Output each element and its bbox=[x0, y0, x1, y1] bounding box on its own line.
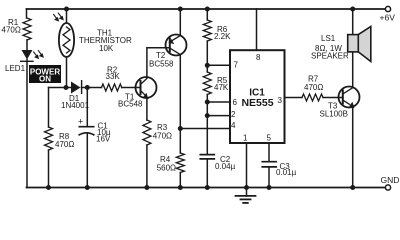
svg-text:4: 4 bbox=[231, 121, 236, 130]
svg-text:5: 5 bbox=[267, 134, 272, 143]
svg-text:NE555: NE555 bbox=[241, 97, 273, 109]
svg-text:0.04µ: 0.04µ bbox=[215, 162, 236, 171]
svg-text:7: 7 bbox=[234, 61, 239, 70]
svg-text:560Ω: 560Ω bbox=[157, 164, 176, 173]
svg-text:470Ω: 470Ω bbox=[55, 140, 74, 149]
svg-text:+6V: +6V bbox=[380, 12, 396, 22]
svg-text:3: 3 bbox=[278, 96, 283, 105]
svg-text:1N4001: 1N4001 bbox=[61, 101, 90, 110]
svg-text:0.01µ: 0.01µ bbox=[276, 168, 297, 177]
svg-text:47K: 47K bbox=[214, 83, 229, 92]
svg-text:6: 6 bbox=[233, 98, 238, 107]
svg-text:2: 2 bbox=[231, 110, 236, 119]
svg-text:1: 1 bbox=[243, 134, 248, 143]
svg-text:GND: GND bbox=[381, 175, 400, 185]
svg-text:16V: 16V bbox=[96, 135, 111, 144]
svg-text:10K: 10K bbox=[99, 44, 114, 53]
svg-text:LS1: LS1 bbox=[321, 34, 336, 43]
svg-text:2.2K: 2.2K bbox=[214, 32, 231, 41]
svg-text:470Ω: 470Ω bbox=[304, 83, 323, 92]
svg-text:470Ω: 470Ω bbox=[2, 26, 21, 35]
svg-text:BC548: BC548 bbox=[118, 100, 143, 109]
svg-text:+: + bbox=[78, 116, 83, 126]
svg-text:SPEAKER: SPEAKER bbox=[311, 52, 349, 61]
svg-text:LED1: LED1 bbox=[5, 64, 26, 73]
svg-text:470Ω: 470Ω bbox=[153, 132, 172, 141]
svg-text:SL100B: SL100B bbox=[320, 110, 348, 119]
svg-text:33K: 33K bbox=[106, 72, 121, 81]
svg-text:BC558: BC558 bbox=[149, 60, 174, 69]
svg-text:8: 8 bbox=[256, 53, 261, 62]
svg-text:ON: ON bbox=[39, 75, 51, 84]
